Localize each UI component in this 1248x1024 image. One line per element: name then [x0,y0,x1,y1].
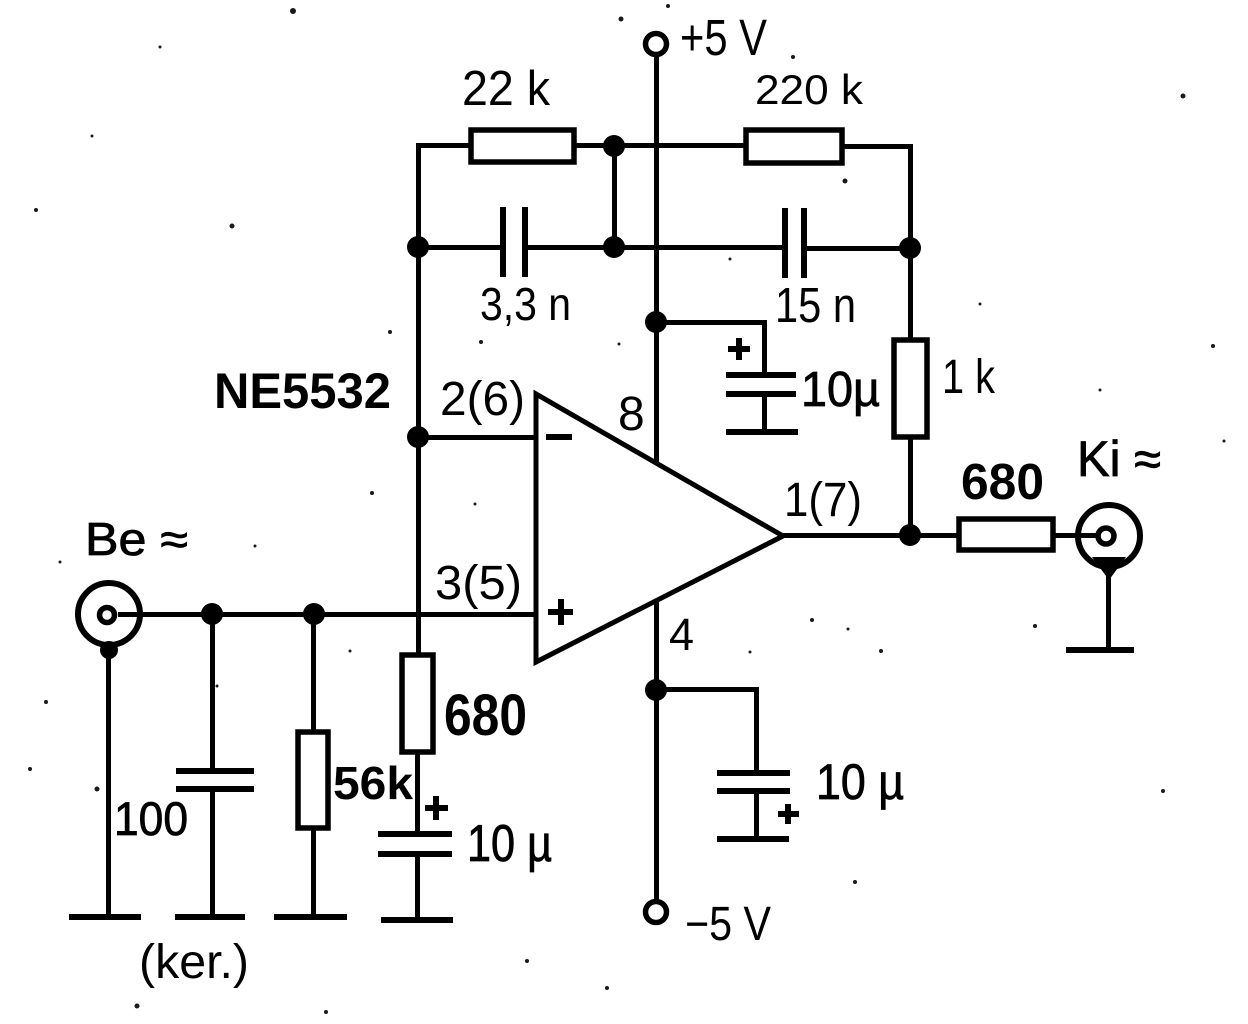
svg-text:10 µ: 10 µ [816,754,904,810]
svg-text:15 n: 15 n [775,279,856,333]
ground bar 100 [175,914,245,920]
wire decoupling bottom vertical [754,687,759,773]
resistor 22k [471,130,574,162]
connector Be ground dot [100,641,118,659]
ground bar Ki [1066,647,1134,653]
wire decoupling bottom horizontal [656,687,759,692]
resistor 220k [746,130,842,163]
wire inverting input [416,435,536,440]
wire Be ground [106,648,111,916]
svg-text:NE5532: NE5532 [214,363,391,419]
polarity plus of capacitor 10u pin8 [728,338,750,360]
junction node B [603,236,625,258]
connector Ki outer circle [1078,505,1140,567]
wire below capacitor 10u pin8 [762,397,767,430]
wire left vertical inverting node rail [416,143,421,657]
capacitor 100 [176,768,254,792]
wire top feedback rail left segment [416,143,473,148]
ground bar 10u pin4 [717,836,789,842]
capacitor 10u pin8 [726,372,796,397]
capacitor 3,3n [500,207,528,277]
plus sign at non-inverting input [548,599,573,625]
svg-text:10 µ: 10 µ [467,815,552,873]
wire output to Ki connector [1053,533,1103,538]
polarity plus of capacitor 10u input [425,796,448,820]
ground bar 10u input [381,917,453,923]
svg-text:10µ: 10µ [801,363,880,417]
resistor 1k [894,340,927,437]
svg-text:680: 680 [961,453,1044,510]
svg-text:8: 8 [618,388,645,441]
wire second rail middle segment [528,245,782,250]
connector Ki ground wedge [1092,557,1126,580]
op-amp NE5532 triangle [536,394,783,662]
svg-text:1 k: 1 k [942,351,996,404]
wire 100 capacitor upper [210,614,215,768]
junction left node on second rail [407,236,429,258]
wire Ki ground [1106,566,1111,650]
resistor 680 input [402,655,433,752]
wire second rail right segment [807,246,910,251]
wire 680 to capacitor [415,752,420,831]
svg-text:680: 680 [444,683,527,748]
capacitor 15n [782,208,807,278]
terminal -5V [646,902,667,923]
wire vertical node A to node B [612,146,617,247]
junction top rail / node A [603,135,625,157]
wire top rail right segment [842,144,912,149]
junction input node 100 [201,603,223,625]
wire 100 capacitor lower [210,792,215,916]
polarity plus of capacitor 10u pin4 [778,804,799,824]
ground bar 56k [274,914,347,920]
wire below capacitor 10u pin4 [754,794,759,838]
junction pin 4 decoupling tap [645,679,667,701]
wire 56k upper [311,614,316,732]
svg-text:3,3 n: 3,3 n [480,278,571,330]
wire output [781,533,959,538]
wire +5V vertical to pin 8 [654,55,659,462]
svg-text:+5 V: +5 V [680,9,767,66]
svg-text:3(5): 3(5) [435,557,522,610]
wire right vertical lower [908,437,913,537]
wire second rail left segment [416,245,502,250]
ground bar Be [69,914,141,920]
resistor 680 output [959,519,1053,550]
minus sign at inverting input [546,434,572,440]
terminal +5V [646,34,667,55]
resistor 56k [298,732,328,828]
wire right vertical upper [908,144,913,342]
svg-text:4: 4 [669,609,694,660]
ground bar capacitor 10u pin8 [726,429,798,435]
connector Be outer circle [78,583,140,645]
svg-text:2(6): 2(6) [440,373,525,426]
svg-text:56k: 56k [333,757,413,809]
wire 56k lower [311,828,316,916]
junction +5V decoupling tap [645,311,667,333]
wire pin 4 vertical [654,601,659,902]
svg-text:(ker.): (ker.) [139,936,249,989]
wire non-inverting input [118,612,536,617]
junction output node [899,524,921,546]
wire capacitor 10u input lower [415,857,420,920]
junction inverting node [407,426,429,448]
svg-text:1(7): 1(7) [784,474,862,527]
junction input node 56k [303,603,325,625]
svg-text:220 k: 220 k [755,66,864,113]
svg-text:22 k: 22 k [462,62,550,116]
wire decoupling top horizontal [656,320,766,325]
svg-text:−5 V: −5 V [685,898,771,951]
wire top rail middle segment [574,143,748,148]
wire decoupling top vertical [762,320,767,374]
capacitor 10u pin4 [717,770,790,794]
svg-text:100: 100 [114,792,188,845]
svg-text:Be ≈: Be ≈ [85,513,188,565]
capacitor 10u input [378,831,452,857]
junction node C right rail [899,237,921,259]
svg-text:Ki ≈: Ki ≈ [1077,431,1161,487]
